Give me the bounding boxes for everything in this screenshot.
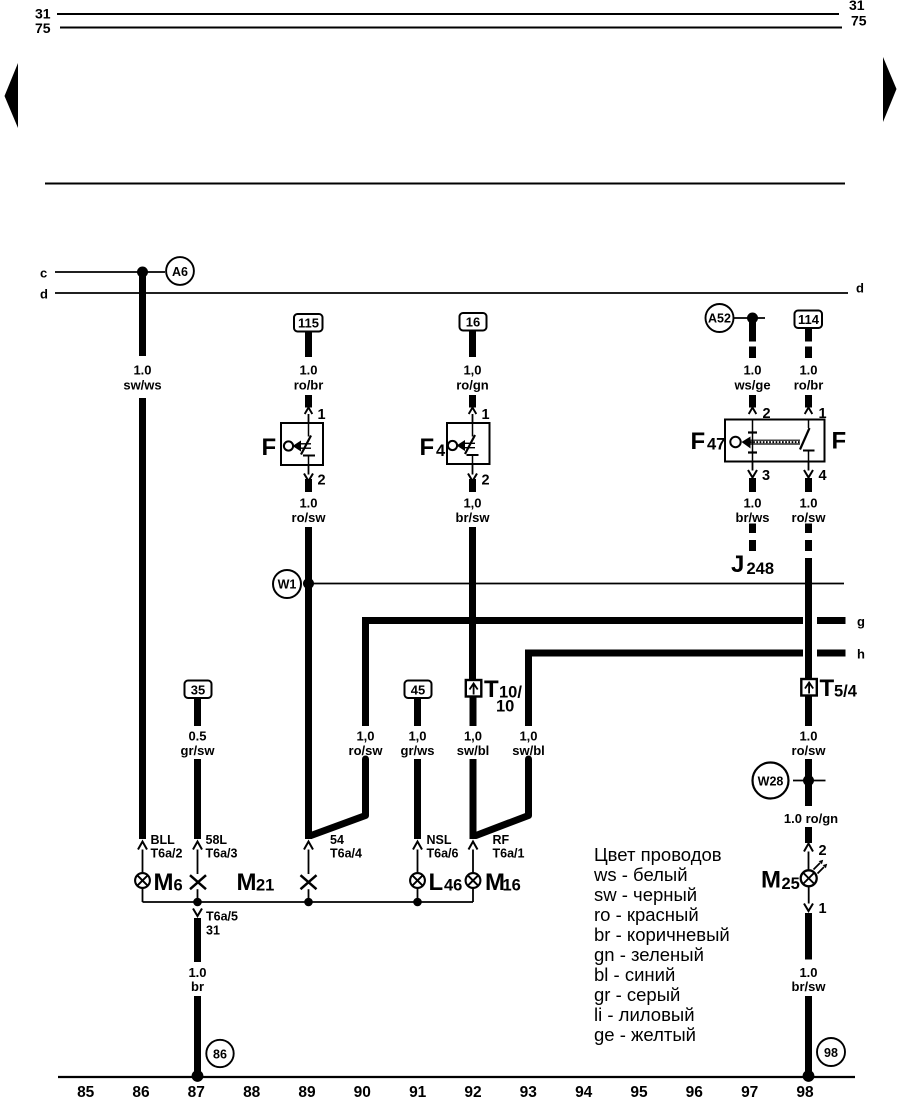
svg-text:br/sw: br/sw [456, 510, 491, 525]
svg-text:br/sw: br/sw [792, 979, 827, 994]
svg-text:ge - желтый: ge - желтый [594, 1024, 696, 1045]
svg-text:1: 1 [318, 407, 326, 423]
bus junction dot 2 [305, 898, 313, 906]
wire W1 line [309, 583, 845, 585]
svg-text:gr/ws: gr/ws [401, 743, 435, 758]
wire g lower diagonal [311, 759, 366, 836]
svg-text:87: 87 [188, 1084, 205, 1101]
svg-text:86: 86 [132, 1084, 150, 1101]
svg-text:1.0: 1.0 [799, 496, 817, 511]
wire ro/sw to W28 [805, 759, 812, 806]
terminal 86 [206, 1040, 233, 1067]
svg-text:1,0: 1,0 [463, 363, 481, 378]
svg-text:ro/sw: ro/sw [792, 743, 827, 758]
svg-text:M: M [761, 867, 781, 894]
svg-text:1.0: 1.0 [799, 965, 817, 980]
wire ro/gn stub [805, 827, 812, 843]
svg-text:91: 91 [409, 1084, 427, 1101]
svg-text:1.0 ro/gn: 1.0 ro/gn [784, 811, 838, 826]
svg-text:1,0: 1,0 [464, 729, 482, 744]
wire br/ws [749, 478, 756, 492]
svg-text:1: 1 [482, 407, 490, 423]
switch F4 contact [472, 423, 474, 437]
F47 switch contact [808, 420, 810, 429]
svg-text:F: F [262, 434, 277, 461]
svg-text:ws - белый: ws - белый [593, 864, 688, 885]
wire ro/sw below T5/4 [805, 696, 812, 727]
wire h lower diagonal [476, 759, 529, 836]
svg-text:ro/br: ro/br [794, 378, 824, 393]
svg-text:W28: W28 [758, 775, 784, 789]
svg-text:gr/sw: gr/sw [181, 743, 216, 758]
pin 2 of F4 [472, 464, 474, 475]
svg-text:T6a/3: T6a/3 [206, 847, 238, 861]
indicator lamp M25 [801, 870, 817, 886]
svg-text:88: 88 [243, 1084, 261, 1101]
svg-text:58L: 58L [206, 833, 228, 847]
svg-text:T: T [820, 675, 835, 702]
wire br/sw lower [469, 527, 476, 681]
wire c [55, 271, 142, 273]
current track line [58, 1076, 855, 1078]
svg-text:F: F [691, 428, 706, 455]
svg-text:J: J [731, 551, 744, 578]
pin 2 of F47 [749, 408, 757, 415]
svg-text:h: h [857, 647, 865, 662]
wire g [362, 617, 803, 624]
svg-text:0.5: 0.5 [188, 729, 206, 744]
pin RF T6a/1 [469, 842, 478, 850]
pin 1 of F [305, 408, 313, 415]
svg-text:A6: A6 [172, 265, 188, 279]
wire ws/ge upper [749, 318, 756, 342]
svg-text:ro/gn: ro/gn [456, 378, 489, 393]
svg-text:sw/bl: sw/bl [457, 743, 490, 758]
svg-text:gn - зеленый: gn - зеленый [594, 944, 704, 965]
svg-text:ro/sw: ro/sw [292, 510, 327, 525]
svg-text:35: 35 [191, 683, 205, 698]
wire ro/sw solid to T5/4 [805, 558, 812, 680]
wire ro/sw upper [305, 479, 312, 492]
svg-text:98: 98 [824, 1046, 838, 1060]
svg-text:1: 1 [819, 901, 827, 917]
svg-text:br - коричневый: br - коричневый [594, 924, 730, 945]
svg-text:3: 3 [762, 468, 770, 484]
wire d [55, 292, 848, 294]
terminal 98 [817, 1038, 845, 1066]
svg-text:1,0: 1,0 [519, 729, 537, 744]
connector 35 [185, 681, 212, 699]
connection W1 [273, 570, 301, 598]
svg-text:M: M [154, 869, 174, 896]
lamp stub M16 bottom [472, 888, 474, 902]
wire br/ws dashes [749, 524, 756, 534]
wire from A52 [734, 317, 766, 319]
svg-text:21: 21 [256, 877, 274, 895]
pin 1 of M25 [808, 887, 810, 904]
wire ro/gn lower [469, 395, 476, 408]
wire g vertical [362, 617, 369, 726]
lamp L46 [410, 873, 425, 888]
connector T5/4 [801, 679, 817, 696]
connector 114 [795, 311, 823, 329]
svg-text:90: 90 [354, 1084, 371, 1101]
svg-text:BLL: BLL [151, 833, 176, 847]
wire sw/bl upper [470, 697, 477, 727]
wire ro/sw dashes [805, 524, 812, 534]
svg-text:1.0: 1.0 [133, 363, 151, 378]
F47 actuator [730, 437, 740, 447]
wire gr/sw lower [194, 759, 201, 839]
svg-text:115: 115 [298, 316, 319, 331]
wire h vertical [525, 650, 532, 727]
svg-text:NSL: NSL [427, 833, 452, 847]
svg-text:1,0: 1,0 [463, 496, 481, 511]
wire to A6 [146, 271, 165, 273]
power rail 75 [60, 27, 842, 29]
svg-text:16: 16 [466, 315, 480, 330]
svg-text:M: M [237, 869, 257, 896]
connector 16 [460, 313, 487, 331]
connector A52 [706, 304, 734, 332]
connector A6 [166, 257, 194, 285]
svg-text:25: 25 [782, 875, 800, 893]
junction dot A52 [748, 313, 758, 323]
svg-text:1.0: 1.0 [299, 496, 317, 511]
svg-text:114: 114 [798, 312, 820, 327]
ground bus line [143, 901, 474, 903]
svg-text:5/4: 5/4 [834, 683, 858, 701]
svg-text:T6a/6: T6a/6 [427, 847, 459, 861]
switch F4 box [447, 423, 490, 464]
wire ro/br right upper [805, 328, 812, 342]
svg-text:br: br [191, 979, 204, 994]
pin 4 of F47 [808, 462, 810, 471]
switch F contact [308, 423, 310, 437]
svg-text:31: 31 [849, 0, 865, 13]
svg-text:248: 248 [747, 560, 775, 578]
wire gr/ws lower [414, 759, 421, 839]
wire sw/ws upper [139, 272, 146, 356]
pin BLL T6a/2 [138, 842, 147, 850]
svg-text:ws/ge: ws/ge [733, 378, 770, 393]
svg-text:94: 94 [575, 1084, 593, 1101]
pin 54 T6a/4 [304, 842, 313, 850]
svg-text:T6a/1: T6a/1 [493, 847, 525, 861]
bus junction dot 3 [414, 898, 422, 906]
bus junction dot 1 [194, 898, 202, 906]
X terminal of M21 [301, 875, 317, 889]
svg-text:97: 97 [741, 1084, 758, 1101]
power rail 31 [57, 13, 839, 15]
junction dot on c [138, 267, 148, 277]
page arrow right [883, 57, 897, 122]
svg-text:2: 2 [482, 473, 490, 489]
splice W28 [753, 763, 789, 799]
svg-text:T6a/5: T6a/5 [206, 910, 238, 924]
connector 45 [405, 681, 432, 699]
wire ro/br lower [305, 395, 312, 408]
wire br upper [194, 918, 201, 962]
ground dot 98 [803, 1071, 814, 1082]
pin 1 of F4 [469, 408, 477, 415]
svg-text:85: 85 [77, 1084, 95, 1101]
svg-text:c: c [40, 266, 47, 281]
pin NSL T6a/6 [413, 842, 422, 850]
svg-text:li - лиловый: li - лиловый [594, 1004, 695, 1025]
svg-text:d: d [856, 281, 864, 296]
wire ro/br right lower [805, 395, 812, 408]
pin 1 of F47 [805, 408, 813, 415]
svg-text:1.0: 1.0 [299, 363, 317, 378]
svg-text:1.0: 1.0 [188, 965, 206, 980]
junction dot W1 [304, 579, 314, 589]
wire sw/ws lower [139, 398, 146, 839]
svg-text:1,0: 1,0 [356, 729, 374, 744]
svg-text:2: 2 [318, 473, 326, 489]
svg-text:6: 6 [174, 877, 183, 895]
ignition switch F47 box [725, 420, 825, 462]
svg-text:T6a/4: T6a/4 [330, 847, 362, 861]
svg-text:75: 75 [851, 13, 867, 29]
F47 pass-through contact [752, 420, 754, 462]
svg-text:sw - черный: sw - черный [594, 884, 697, 905]
svg-text:45: 45 [411, 683, 425, 698]
svg-text:54: 54 [330, 833, 344, 847]
ground dot 87 [192, 1071, 203, 1082]
X terminal M21 left [190, 875, 206, 889]
svg-text:93: 93 [520, 1084, 538, 1101]
svg-text:10: 10 [496, 698, 514, 716]
svg-text:92: 92 [464, 1084, 481, 1101]
wire ro/br upper [305, 331, 312, 357]
pin T6a/5 [193, 909, 202, 917]
svg-text:1.0: 1.0 [799, 363, 817, 378]
wire h [525, 650, 803, 657]
wire br lower [194, 996, 201, 1075]
svg-text:31: 31 [206, 924, 220, 938]
lamp M16 [466, 873, 481, 888]
pin 3 of F47 [752, 462, 754, 471]
wire ro/sw lower [305, 527, 312, 839]
svg-text:Цвет проводов: Цвет проводов [594, 844, 722, 865]
svg-text:86: 86 [213, 1048, 227, 1062]
svg-text:L: L [429, 869, 444, 896]
svg-text:1.0: 1.0 [743, 363, 761, 378]
svg-text:1.0: 1.0 [743, 496, 761, 511]
wire sw/bl lower [470, 759, 477, 839]
svg-text:75: 75 [35, 20, 51, 36]
lamp arrows [814, 863, 821, 870]
svg-text:2: 2 [819, 843, 827, 859]
svg-text:RF: RF [493, 833, 510, 847]
connector T10/10 [466, 680, 482, 697]
svg-text:br/ws: br/ws [736, 510, 770, 525]
wire br/sw right lower [805, 996, 812, 1075]
svg-text:95: 95 [630, 1084, 648, 1101]
connector 115 [294, 314, 323, 332]
svg-text:47: 47 [707, 436, 725, 454]
lamp M6 [135, 873, 150, 888]
wire gr/sw upper [194, 698, 201, 726]
separator line [45, 183, 845, 185]
svg-text:bl - синий: bl - синий [594, 964, 675, 985]
wire gr/ws upper [414, 698, 421, 726]
svg-text:46: 46 [444, 877, 462, 895]
switch F box [281, 423, 323, 465]
pin 2 of M25 [804, 844, 813, 852]
svg-text:1,0: 1,0 [408, 729, 426, 744]
wire ro/sw right [805, 478, 812, 492]
wire br/sw right upper [805, 913, 812, 960]
svg-text:T6a/2: T6a/2 [151, 847, 183, 861]
svg-text:96: 96 [686, 1084, 704, 1101]
pin 2 of F [308, 465, 310, 475]
svg-text:1.0: 1.0 [799, 729, 817, 744]
svg-text:A52: A52 [708, 312, 731, 326]
svg-text:gr - серый: gr - серый [594, 984, 680, 1005]
page arrow left [5, 63, 19, 128]
svg-text:98: 98 [796, 1084, 814, 1101]
svg-text:F: F [832, 428, 847, 455]
svg-text:W1: W1 [278, 578, 297, 592]
wire br/sw upper [469, 479, 476, 492]
svg-text:ro - красный: ro - красный [594, 904, 699, 925]
lamp stub L46 bottom [417, 888, 419, 902]
svg-text:ro/sw: ro/sw [792, 510, 827, 525]
svg-text:4: 4 [819, 468, 827, 484]
svg-text:89: 89 [298, 1084, 316, 1101]
pin 58L T6a/3 [193, 842, 202, 850]
svg-text:ro/br: ro/br [294, 378, 324, 393]
wire ro/gn upper [469, 331, 476, 358]
svg-text:16: 16 [503, 877, 521, 895]
wire ws/ge lower [749, 395, 756, 408]
svg-text:g: g [857, 614, 865, 629]
svg-text:d: d [40, 287, 48, 302]
svg-text:sw/ws: sw/ws [123, 378, 161, 393]
svg-text:4: 4 [436, 442, 446, 460]
svg-text:F: F [420, 434, 435, 461]
